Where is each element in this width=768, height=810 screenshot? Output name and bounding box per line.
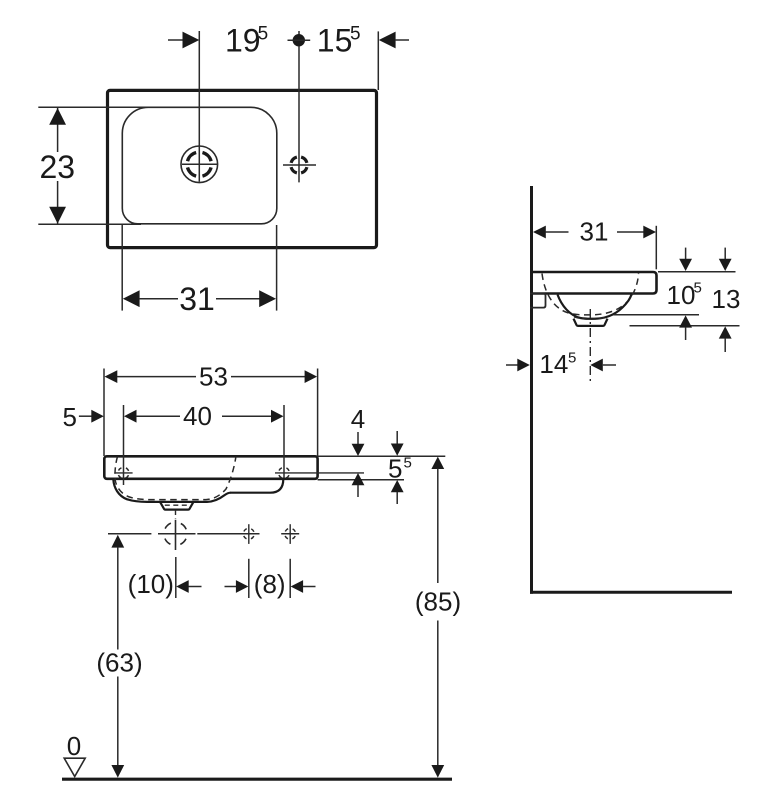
dimension 53: left line segment <box>117 376 196 378</box>
dimension 31 top view: right extension line <box>276 225 278 311</box>
dimension 14.5: left tail line <box>506 364 519 366</box>
front view: top surface extension line <box>318 455 446 457</box>
top view: second tap hole centerline vertical <box>298 31 300 182</box>
dimension 5.5: bottom up-arrow <box>391 480 404 504</box>
side view: drain boss hidden line (dashed) <box>574 317 607 319</box>
side view: drain boss <box>574 319 608 326</box>
front view: right supply hole vertical tick <box>289 524 291 544</box>
dimension 53: left arrowhead <box>105 370 118 383</box>
dimension (10)/(8): shared extension line <box>248 559 250 598</box>
front view: right supply hole cross (dashed circle) <box>285 528 296 539</box>
dimension (8): right extension line <box>289 559 291 598</box>
dimension 5.5: top down-arrow <box>391 431 404 456</box>
front view: drain centerline above (dash) <box>175 510 177 519</box>
dimension (10): left arrowhead <box>176 580 189 593</box>
dimension (63): lower line and down arrowhead <box>111 677 124 778</box>
dimension 23: bottom extension line <box>38 223 141 225</box>
top view: main tap hole inner arcs <box>188 153 212 177</box>
front view: right fixing hole tick and 4-extension line <box>275 472 364 474</box>
svg-text:5: 5 <box>388 453 402 483</box>
dimension node dot between 19.5 and 15.5 <box>293 34 305 46</box>
svg-text:5: 5 <box>62 402 76 432</box>
dimension 53: right line segment <box>231 376 305 378</box>
dimension 31 top view: left extension line <box>121 225 123 311</box>
svg-text:(8): (8) <box>254 569 286 599</box>
dimension 53: right arrowhead <box>305 370 318 383</box>
dimension 4: top down-arrow <box>352 432 365 456</box>
side view: wall bracket <box>530 294 546 308</box>
dimension 40: right extension line <box>283 405 285 478</box>
svg-text:14: 14 <box>539 349 568 379</box>
side view: top surface extension line <box>658 271 736 273</box>
dimension (85): lower line and down arrowhead <box>431 621 444 778</box>
dimension 23: down arrowhead <box>49 207 66 224</box>
top view: main tap hole centerline horizontal <box>182 163 218 165</box>
svg-text:19: 19 <box>225 23 261 59</box>
svg-text:53: 53 <box>199 362 228 392</box>
dimension 31 top view: right line segment <box>216 298 260 300</box>
svg-text:(63): (63) <box>96 647 142 677</box>
floor line <box>62 778 452 781</box>
dimension 31 side view: left arrowhead at wall <box>533 226 546 239</box>
side view: basin slab profile <box>530 272 657 294</box>
dimension (8): right arrowhead <box>291 580 304 593</box>
dimension 23: upper dimension line <box>57 108 59 152</box>
dimension 23: top extension line <box>38 106 150 108</box>
dimension 40: right arrowhead <box>271 410 284 423</box>
svg-text:4: 4 <box>351 404 365 434</box>
dimension 40: left extension line <box>123 405 125 485</box>
dimension 31 side view: right arrowhead <box>643 226 656 239</box>
dimension (8): right tail <box>303 586 316 588</box>
dimension (85): top up-arrow <box>431 457 444 583</box>
dimension 31 top view: left line segment <box>139 298 178 300</box>
dimension 4: bottom up-arrow <box>352 473 365 497</box>
dimension (10): drain extension line <box>175 557 177 598</box>
front view: left supply hole vertical tick <box>248 524 250 544</box>
dimension 14.5: arrowhead at drain centerline <box>590 359 603 372</box>
datum 0: triangle symbol <box>64 758 85 776</box>
front view: right fixing hole (dashed circle) <box>279 467 290 478</box>
dimension 40: left arrowhead <box>124 410 137 423</box>
svg-text:23: 23 <box>40 149 76 185</box>
dimension 13: bottom up-arrow <box>719 326 732 352</box>
dimension (63): top up-arrow <box>111 535 124 650</box>
side view: wall line <box>530 186 533 594</box>
dimension 40: left line segment <box>136 415 180 417</box>
dimension 15.5: extension line at right edge <box>377 31 379 90</box>
front view: inner bowl hidden contour (dashed) <box>115 457 236 500</box>
svg-text:5: 5 <box>258 24 269 45</box>
side view: inner bowl hidden contour (dashed) <box>542 274 639 315</box>
front view: outer bowl contour <box>113 479 230 502</box>
front view: drain symbol vertical tick <box>175 520 177 550</box>
dimension 23: lower dimension line <box>57 181 59 224</box>
dimension (10): right arrowhead <box>236 580 249 593</box>
top view: second tap hole arcs <box>291 157 307 173</box>
dimension 10.5: bottom up-arrow <box>679 315 692 340</box>
front view: left fixing hole horizontal tick <box>114 472 132 474</box>
dimension (10): left tail <box>189 586 202 588</box>
svg-text:13: 13 <box>712 284 741 314</box>
dimension 14.5: right tail line <box>603 364 616 366</box>
top view: tabletop outline <box>108 90 377 247</box>
dimension 31 side view: left line segment <box>546 231 569 233</box>
dimension 31 side view: right extension line <box>655 226 657 269</box>
top view: basin inner rim <box>122 107 276 224</box>
front view: right shelf bottom edge <box>230 479 283 493</box>
dimension 23: up arrowhead <box>49 108 66 125</box>
dimension 53: right extension line <box>317 369 319 457</box>
dimension 14.5: arrowhead at wall <box>517 359 530 372</box>
svg-text:(85): (85) <box>415 587 461 617</box>
dimension 15.5: arrowhead at tabletop right edge <box>379 32 396 49</box>
svg-text:5: 5 <box>404 454 412 471</box>
svg-text:5: 5 <box>350 24 361 45</box>
front view: drain boss hidden line (dashed) <box>165 504 190 506</box>
dimension 10.5: basin depth line <box>614 314 700 316</box>
svg-text:5: 5 <box>694 280 702 297</box>
dimension 19.5: arrowhead at tap centerline <box>183 32 200 49</box>
front view: drain boss <box>160 502 194 510</box>
top view: main tap hole outer circle <box>181 146 218 183</box>
svg-text:15: 15 <box>317 23 353 59</box>
front view: left fixing hole (dashed circle) <box>118 467 129 478</box>
dimension 19.5: tail line left <box>168 39 184 41</box>
dimension 10.5: top down-arrow <box>679 248 692 271</box>
front view: drain datum line segments <box>108 533 299 535</box>
front view: basin slab <box>104 456 317 479</box>
dimension (10): right tail <box>225 586 237 588</box>
top view: main tap hole centerline vertical <box>198 31 200 182</box>
svg-text:(10): (10) <box>128 569 174 599</box>
dimension node dot horizontal tick <box>288 39 311 41</box>
dimension 15.5: tail line right <box>395 39 409 41</box>
svg-text:31: 31 <box>580 217 609 247</box>
svg-text:10: 10 <box>667 280 696 310</box>
side view: outer bowl contour <box>558 295 632 319</box>
dimension 31 top view: left arrowhead <box>123 290 140 307</box>
dimension 13: top down-arrow <box>719 248 732 271</box>
dimension 40: right line segment <box>222 415 272 417</box>
svg-text:5: 5 <box>568 350 576 367</box>
dimension 31 side view: right line segment <box>617 231 644 233</box>
dimension 5: arrowhead at slab left edge <box>91 410 104 423</box>
svg-text:0: 0 <box>67 731 81 761</box>
dimension 31 top view: right arrowhead <box>259 290 276 307</box>
side view: drain centerline (dash-dot) <box>589 309 591 384</box>
front view: slab bottom extension line (5.5) <box>318 479 404 481</box>
front view: left supply hole cross (dashed circle) <box>243 528 254 539</box>
side view: floor/leg line <box>530 591 732 594</box>
dimension 53: left extension line <box>103 369 105 457</box>
front view: drain symbol (dashed circle) <box>164 522 187 545</box>
top view: second tap hole centerline horizontal <box>283 164 316 166</box>
svg-text:31: 31 <box>179 281 215 317</box>
svg-text:40: 40 <box>183 401 212 431</box>
dimension 13: total depth line <box>630 325 740 327</box>
dimension 5: tail line <box>79 415 92 417</box>
